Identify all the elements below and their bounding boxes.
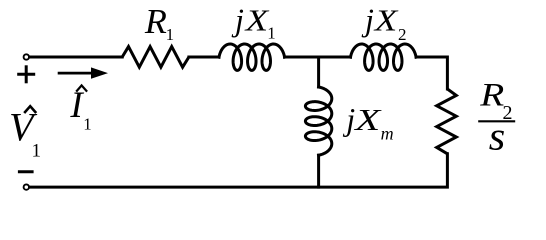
inductor jXm xyxy=(305,87,331,155)
terminal top-left xyxy=(24,54,29,59)
wire L1 to L2 through node xyxy=(285,56,351,59)
svg-text:X: X xyxy=(353,102,382,137)
wire R2 bottom, corner, bottom rail xyxy=(30,154,447,187)
svg-text:j: j xyxy=(361,2,374,38)
svg-text:1: 1 xyxy=(166,25,175,44)
svg-text:1: 1 xyxy=(32,140,42,161)
svg-text:I: I xyxy=(69,85,84,126)
svg-text:R: R xyxy=(144,2,167,41)
fraction bar xyxy=(478,120,515,122)
minus sign xyxy=(18,170,34,173)
svg-text:X: X xyxy=(372,3,398,38)
wire L2 to corner and down to R2 xyxy=(416,57,447,89)
svg-text:X: X xyxy=(243,3,269,38)
svg-text:m: m xyxy=(381,124,394,144)
inductor jX2 xyxy=(351,44,417,70)
svg-text:j: j xyxy=(231,2,244,38)
svg-text:2: 2 xyxy=(398,25,407,44)
wire top-left horizontal xyxy=(30,56,122,59)
hat of I1 xyxy=(76,85,87,91)
plus sign xyxy=(17,65,35,83)
svg-text:1: 1 xyxy=(83,114,92,133)
svg-text:R: R xyxy=(479,78,504,114)
resistor R2/s xyxy=(437,89,457,154)
wire node vertical top xyxy=(317,57,320,87)
resistor R1 xyxy=(122,47,189,68)
terminal bottom-left xyxy=(24,184,29,189)
svg-text:j: j xyxy=(342,101,355,137)
hat of V1 xyxy=(24,106,36,113)
wire R1 to L1 xyxy=(189,56,219,59)
wire node vertical bottom xyxy=(317,155,320,187)
svg-text:s: s xyxy=(489,113,506,158)
current arrow I1 xyxy=(58,67,108,78)
svg-text:1: 1 xyxy=(267,23,276,42)
inductor jX1 xyxy=(219,44,285,70)
